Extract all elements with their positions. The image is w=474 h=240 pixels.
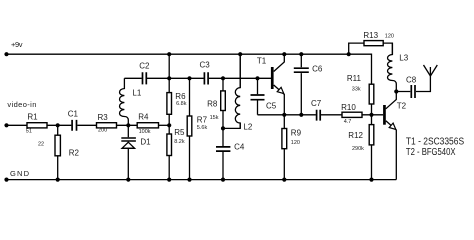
svg-text:C7: C7 xyxy=(311,99,322,108)
svg-text:R12: R12 xyxy=(348,131,363,140)
svg-text:120: 120 xyxy=(385,34,394,40)
svg-text:R6: R6 xyxy=(175,92,186,101)
svg-text:4.7: 4.7 xyxy=(344,119,352,125)
svg-text:T1: T1 xyxy=(257,57,267,66)
svg-text:200: 200 xyxy=(98,128,107,134)
svg-text:C6: C6 xyxy=(312,64,323,73)
svg-text:6.8k: 6.8k xyxy=(176,101,187,107)
svg-text:22: 22 xyxy=(38,142,44,148)
svg-text:8.2k: 8.2k xyxy=(174,139,185,145)
svg-text:15k: 15k xyxy=(210,115,219,121)
svg-text:R9: R9 xyxy=(291,128,302,137)
svg-text:T1 - 2SC3356S: T1 - 2SC3356S xyxy=(406,137,464,148)
svg-text:video-in: video-in xyxy=(7,100,36,109)
svg-text:C2: C2 xyxy=(139,62,150,71)
svg-text:R11: R11 xyxy=(347,74,362,83)
svg-text:R13: R13 xyxy=(363,31,378,40)
svg-text:290k: 290k xyxy=(352,146,364,152)
svg-text:R5: R5 xyxy=(174,128,185,137)
svg-text:L1: L1 xyxy=(132,89,141,98)
svg-text:120: 120 xyxy=(291,140,300,146)
svg-text:100k: 100k xyxy=(139,129,151,135)
svg-text:C8: C8 xyxy=(406,76,417,85)
svg-text:C4: C4 xyxy=(234,143,245,152)
svg-text:R8: R8 xyxy=(207,100,218,109)
svg-text:R7: R7 xyxy=(197,116,208,125)
svg-text:L2: L2 xyxy=(243,122,252,131)
svg-text:C5: C5 xyxy=(266,102,277,111)
svg-text:C1: C1 xyxy=(68,109,79,118)
svg-text:R4: R4 xyxy=(138,113,149,122)
svg-text:+9v: +9v xyxy=(11,40,23,49)
svg-text:T2: T2 xyxy=(397,102,407,111)
svg-text:T2 - BFG540X: T2 - BFG540X xyxy=(406,147,456,158)
svg-text:D1: D1 xyxy=(140,137,151,146)
svg-text:51: 51 xyxy=(26,128,32,134)
svg-text:33k: 33k xyxy=(352,87,361,93)
svg-text:R10: R10 xyxy=(341,103,356,112)
svg-text:R3: R3 xyxy=(98,113,109,122)
svg-text:R1: R1 xyxy=(27,113,38,122)
svg-text:5.6k: 5.6k xyxy=(197,125,208,131)
svg-text:GND: GND xyxy=(10,169,30,178)
svg-text:R2: R2 xyxy=(69,148,80,157)
svg-text:L3: L3 xyxy=(399,54,408,63)
svg-text:C3: C3 xyxy=(200,61,211,70)
